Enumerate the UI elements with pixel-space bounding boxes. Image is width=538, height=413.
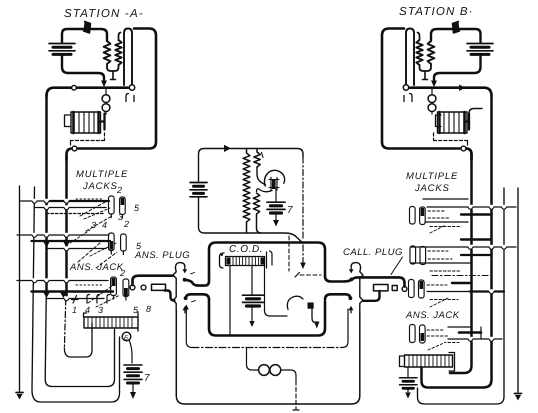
dash-dot wire in box [302,245,304,262]
resistor coil B2 [416,40,422,65]
middle loop left [186,309,192,348]
row tap r1b [427,206,516,208]
coil join bracket B [420,64,432,71]
svg-text:4: 4 [102,220,107,230]
corner circle A [72,146,77,151]
receiver shell [269,178,279,191]
wire riser to plug [133,276,173,285]
dashed diag r9 [430,298,448,307]
row tap r2e [430,270,461,272]
hook contact marks B [404,94,412,102]
row tap r2a [461,238,491,240]
hook contact t3 [97,295,100,304]
right multiple bus [411,96,522,404]
contact mark in box [295,273,300,278]
row tap r3c [427,291,470,293]
right jack field [400,207,455,399]
row tap r4d [448,342,459,344]
wire hops right bus [468,205,507,341]
wire hops left bus [32,199,69,301]
bus wire A [47,88,129,96]
row tap r1e [430,226,461,228]
row tap 1a [20,200,110,202]
wire circle to ringer A [105,112,107,115]
call tip arrow lower [350,310,352,313]
multiple jack 1 contact a [109,196,115,214]
middle loop right [343,309,349,348]
operator receiver [265,170,285,186]
box lip upper-left [185,278,209,286]
svg-text:MULTIPLE: MULTIPLE [76,169,128,180]
trunk wire R1 [450,149,472,374]
plug tip blob lower [184,296,188,300]
dashed texture r4 [428,258,452,260]
svg-text:1: 1 [72,305,77,315]
svg-text:ANS. PLUG: ANS. PLUG [134,250,190,261]
trunk wire R2 [422,96,492,388]
arrow dash-dot end [300,263,306,270]
svg-text:ANS. JACK: ANS. JACK [69,262,124,273]
calling plug assembly [349,257,407,313]
battery 7 left [124,365,142,399]
right multiple jack 3 contact a [409,280,415,298]
extra hops and junction marks [44,199,70,298]
dash-dot cord wire [192,347,342,349]
ans jack sleeve circle [130,285,135,290]
wire battery top [199,149,304,182]
row tap r2b [411,246,516,248]
dashed wire in box [288,236,290,271]
relay coil C.O.D. [226,257,265,266]
bus line L1 [19,186,21,391]
call plug small square [392,286,397,291]
svg-text:STATION B·: STATION B· [399,6,474,18]
box lip lower-right [325,294,350,299]
receiver hanger A [124,29,132,86]
battery B [467,44,493,55]
corner wire A down [67,149,72,161]
ground tick R4 [515,393,522,395]
bus circle A [72,85,77,90]
row tap r4c [448,338,502,340]
right multiple jack 1 contact a [410,207,416,225]
supervisory lamp 2 [270,365,281,376]
hook contact t1 [72,296,79,304]
right multiple jack 1 contact b [420,207,426,225]
dashed texture r5 [427,284,447,286]
dashed texture r1 [428,210,446,212]
bent arrow wire [312,309,316,323]
center cord circuit top [190,145,303,243]
call tip blob lower [349,296,353,300]
call plug handle [374,285,389,291]
row tap 2b [32,240,111,242]
dashed drop wire [295,381,297,409]
resistor coil A1 [104,41,111,64]
answering jack contact a [111,277,117,296]
svg-text:JACKS: JACKS [82,181,118,192]
bus line R3 [418,188,505,404]
arrow into bus A [101,81,107,88]
answering relay coil [84,317,138,328]
lamp circle 6 [122,332,131,341]
row tap r2d [411,262,470,264]
relay C.O.D. bracket [220,253,225,268]
wire coil right down [265,266,288,316]
dash-dot wire down center [302,157,304,240]
right multiple jack 3 contact b [419,280,425,298]
plug spring brace [173,263,185,311]
dashed texture r7 [427,335,448,337]
arrow into bus B [431,81,437,88]
left jack field [70,196,142,399]
box lip lower-left [186,294,209,299]
outer loop left [176,311,359,404]
dashed texture l4 [76,284,104,286]
wire handle elbow [165,291,175,301]
svg-text:7: 7 [144,373,150,384]
wire call plug top [352,277,405,286]
call tip arrow upper [350,266,352,270]
ringer armature link B [465,114,469,130]
station A subscriber set [47,22,157,161]
svg-text:5: 5 [134,203,140,213]
right relay bracket left [400,356,405,367]
lamp wire right [281,370,296,381]
ringer coil B [438,112,468,133]
call plug sleeve circle [402,287,407,292]
row tap r3a [432,275,490,277]
station B subscriber set (mirror of A) [382,22,493,161]
resistor coil A2 [115,40,121,65]
transmitter (mic) station B [453,22,460,34]
row tap r1a [423,198,468,200]
coil stub B [423,71,428,80]
wire relay to battery [407,367,409,377]
dashed texture l5 [96,295,120,307]
arrow on top wire C [224,145,231,152]
dashed leader 2 [86,216,112,231]
outer cord loop [176,305,359,411]
ground tick L1 [16,392,23,394]
hook junction circle B [403,85,408,90]
corner circle B [461,146,466,151]
box lip upper-right [325,276,351,282]
battery right [400,378,418,399]
row tap r1d [425,221,468,223]
wire hook to bus B [431,88,433,95]
contact spring arc [287,296,303,309]
row tap r3b [452,282,471,284]
box outline upper [209,243,325,279]
right answering jack contact a [410,325,416,343]
answering relay bracket [84,313,87,317]
answering plug assembly [130,263,195,313]
wire dash corner B [467,141,469,146]
svg-text:C.O.D.: C.O.D. [229,244,263,255]
right answering jack contact b [420,325,426,343]
resistor C4 lower [253,193,261,233]
wire coil center down [251,266,253,294]
svg-text:CALL. PLUG: CALL. PLUG [343,247,403,258]
coil A2 top tie [119,33,121,41]
wire bottom loop A [62,56,104,83]
relay pin right [137,312,139,331]
svg-text:4: 4 [85,305,90,315]
right relay bracket right [449,353,455,372]
receiver hanger B [406,29,414,86]
hook contact t2 [87,295,90,304]
svg-text:6: 6 [124,335,128,342]
battery A [49,44,75,55]
svg-text:3: 3 [98,305,103,315]
row tap 2a [17,234,109,236]
wire battery bottom [199,198,303,243]
dashed leader 5 [88,286,112,303]
wire call handle elbow [363,291,380,301]
dashed diag r8 [430,225,446,233]
row tap 3a [17,280,108,282]
battery C [190,183,207,197]
tick label mark [262,153,264,158]
row tap r1c [461,213,491,215]
row tap r4b [459,331,481,334]
ringer bracket B (drawn on left in true coords) [436,115,442,127]
row tap r3d [430,299,458,301]
bus arrow B [459,85,465,92]
svg-text:2: 2 [116,185,122,195]
svg-text:8: 8 [146,304,151,314]
trunk wire L4 / inner U [65,156,68,299]
hook switch circles A [102,95,110,103]
dashed texture r3 [428,250,448,252]
dashed texture r2 [428,217,450,219]
plug tip arrow lower [184,310,186,313]
svg-text:ANS. JACK: ANS. JACK [405,310,460,321]
bus line L2 / outer U [32,187,120,402]
contact block [308,303,314,309]
svg-text:STATION -A-: STATION -A- [64,8,144,20]
multiple jack 2 contact a [109,233,115,251]
dashed leader 1 [80,201,107,216]
dashed wire ringer B [434,133,468,141]
svg-text:3: 3 [91,220,96,230]
multiple jack 2 contact b [121,234,127,251]
coil B2 top tie [418,33,420,41]
call plug spring brace [351,263,363,311]
bus line R4 [517,188,519,392]
ringer coil A [71,112,101,133]
dashed wire ringer A [71,133,105,141]
resistor C3 [243,149,250,234]
right relay coil [405,355,453,367]
wire dash corner A [70,141,72,146]
wire coil left down [229,266,231,334]
ringer armature link A [101,114,105,130]
svg-text:MULTIPLE: MULTIPLE [406,171,458,182]
dashed diag r10 [428,342,446,350]
dashed link to box edge [300,274,321,276]
svg-text:2: 2 [123,219,129,229]
wire to receiver [257,167,266,185]
left multiple bus [16,95,120,402]
row tap r2c [461,254,491,256]
plug tip blob upper [183,278,187,282]
wire hook to bus A [105,88,107,95]
svg-text:7: 7 [287,205,293,216]
box outline lower [209,299,325,336]
row tap r4a [448,326,470,328]
bus wire B [410,88,492,96]
C.O.D. relay box [185,236,352,336]
answering jack contact b [123,279,129,297]
hook contact marks A [126,94,134,102]
dashed leader 4 [96,252,117,268]
right multiple jack 2 contact b [420,247,426,265]
hook contact t4 [107,295,110,304]
arrow middle loop [184,305,189,310]
leader line call plug [391,257,403,275]
svg-text:JACKS: JACKS [414,183,450,194]
multiple jack 1 contact b [120,197,126,215]
outer wire B right [382,29,460,149]
transmitter (mic) station A [84,22,91,34]
supervisory lamp 1 [259,365,270,376]
hook switch circles B [428,95,436,103]
wire bottom loop B [434,56,481,83]
corner wire B down [467,149,472,161]
resistor coil B1 [428,41,435,64]
dashed texture l6 [70,230,90,243]
wire circle to ringer B [431,112,433,115]
relay contacts right [267,251,273,268]
plug tip circle [141,285,146,290]
coil stub A [111,71,116,80]
wire top loop B [431,29,481,42]
wire top loop A [62,29,107,42]
row tap 3b [32,290,114,292]
ringer bracket A [65,115,71,127]
dashed texture l2 [84,208,110,219]
arrow on tap 3b [60,293,66,299]
lamp feed wire left [247,348,259,371]
row tap 2c [47,248,107,250]
right multiple jack 2 contact a [410,246,416,264]
row tap 1c [47,213,104,215]
plug handle [152,284,166,290]
capacitor 7 center [267,189,285,227]
receiver bottom loop [257,189,273,192]
jack tails left [111,214,126,300]
plug tip arrow upper [184,266,186,270]
dashed texture l1 [76,198,104,200]
trunk wire L3 / middle U [45,95,48,292]
tick dash lower [192,301,196,302]
svg-text:3: 3 [118,212,123,222]
dashed leader 3 [78,243,100,262]
outer wire A right [78,29,156,149]
call tip blob upper [350,278,354,282]
hook junction circle A [129,85,134,90]
capacitor C.O.D. [243,295,264,327]
wire lamp to battery [129,340,132,363]
resistor C4 upper [254,149,260,168]
coil join bracket A [107,64,119,71]
row tap 1b [35,207,107,209]
tick dash upper [191,273,195,274]
svg-text:2: 2 [119,268,125,278]
dashed texture l3 [90,243,116,256]
row tap 3c [47,298,105,300]
dashed texture r6 [427,329,445,331]
stub vertical 481 [480,327,482,339]
